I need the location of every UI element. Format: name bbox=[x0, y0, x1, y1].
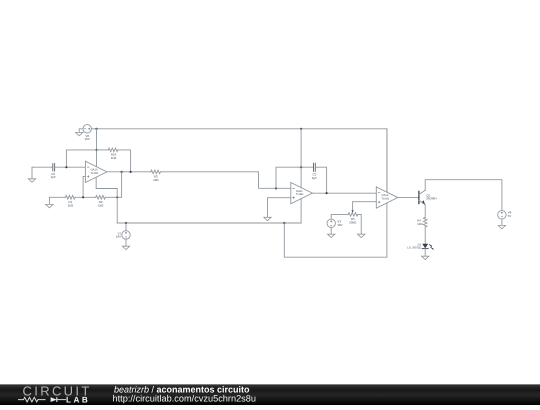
op-amp OA10 bbox=[85, 161, 107, 182]
ground (V6) bbox=[76, 132, 83, 135]
wire top supply rail bbox=[92, 129, 387, 192]
pot wiper arrowhead bbox=[351, 210, 353, 212]
voltage source V3 bbox=[327, 219, 335, 227]
svg-text:1kΩ: 1kΩ bbox=[98, 203, 104, 207]
svg-text:1kΩ: 1kΩ bbox=[68, 203, 74, 207]
transistor Q1 bbox=[418, 191, 420, 203]
LED D1 bbox=[422, 244, 428, 249]
node output to R2 bbox=[121, 171, 123, 173]
voltage source V8 bbox=[498, 211, 506, 219]
wire OA12 output to Q1 base bbox=[398, 197, 419, 199]
node non-inverting divider bbox=[82, 196, 84, 198]
ground (V3) bbox=[328, 234, 335, 237]
wire OA10 bottom supply stub bbox=[96, 177, 117, 223]
svg-text:TL081: TL081 bbox=[296, 193, 304, 196]
op-amp OA11 bbox=[291, 183, 313, 204]
svg-text:TL081: TL081 bbox=[91, 172, 99, 175]
svg-text:1kΩ: 1kΩ bbox=[111, 156, 117, 160]
svg-text:50kΩ: 50kΩ bbox=[349, 221, 357, 225]
wire OA10 non-inverting input bbox=[83, 176, 85, 197]
wire R5 right to ground bbox=[358, 214, 361, 234]
svg-text:TL081: TL081 bbox=[382, 198, 390, 201]
wire inverting input up to C3 bbox=[276, 167, 313, 188]
capacitor C3 bbox=[314, 163, 316, 171]
wire OA10 output bbox=[107, 171, 151, 173]
svg-text:16V: 16V bbox=[337, 223, 342, 227]
wire OA11 non-inverting to ground bbox=[268, 198, 291, 218]
node OA11 inverting input bbox=[275, 187, 277, 189]
node R2 to rail bbox=[116, 196, 118, 198]
wire R2 right lead bbox=[105, 196, 121, 198]
node R16 left junction bbox=[95, 149, 97, 151]
wire C2 to OA10 inverting input bbox=[55, 166, 86, 168]
op-amp OA12 bbox=[376, 187, 398, 208]
ground (V7) bbox=[122, 246, 129, 249]
ground (R5) bbox=[358, 234, 365, 237]
wire OA11 output to OA12 bbox=[312, 192, 376, 194]
wire OA11 bottom supply stub bbox=[300, 199, 302, 224]
resistor R3 bbox=[151, 170, 161, 174]
capacitor C2 bbox=[53, 164, 55, 171]
wire feedback to inverting input bbox=[66, 150, 96, 167]
wire OA11 top supply stub bbox=[300, 129, 302, 188]
wire OA10 top supply stub bbox=[96, 129, 98, 167]
ground (LED) bbox=[422, 256, 429, 259]
svg-text:16V: 16V bbox=[85, 137, 90, 141]
node inverting input bbox=[65, 166, 67, 168]
node V+ at OA11 bbox=[300, 128, 302, 130]
svg-text:1kΩ: 1kΩ bbox=[153, 178, 159, 182]
wire ground to C2 bbox=[32, 166, 52, 168]
resistor R4 bbox=[423, 217, 427, 227]
wire negative rail bbox=[117, 222, 301, 224]
node OA11 output feedback bbox=[326, 192, 328, 194]
ground (R1) bbox=[48, 197, 50, 204]
ground (V8) bbox=[498, 225, 505, 228]
wire OA12 top supply stub bbox=[386, 129, 388, 192]
wire R16 right lead to output bbox=[118, 150, 131, 172]
wire R1 left lead bbox=[49, 196, 65, 198]
node V+ at OA10 bbox=[95, 128, 97, 130]
svg-text:16V: 16V bbox=[116, 235, 121, 239]
svg-text:2N3904: 2N3904 bbox=[426, 197, 437, 201]
voltage source V6 bbox=[83, 125, 91, 133]
node rail to bottom loop bbox=[283, 222, 285, 224]
node output to R16 bbox=[130, 171, 132, 173]
node C3 line at supply stub bbox=[300, 166, 302, 168]
wire LED to ground bbox=[424, 249, 426, 257]
wire Q1 emitter to R4 bbox=[424, 205, 426, 218]
wire Q1 collector to supply bbox=[425, 180, 502, 211]
wire R5 left to source bbox=[331, 214, 348, 219]
svg-text:5V: 5V bbox=[508, 214, 512, 218]
wire OA12 non-inverting to pot wiper bbox=[353, 202, 377, 211]
wire R1 to R2 bbox=[75, 196, 96, 198]
wire V6 to ground bbox=[79, 129, 83, 133]
wire rail loop to OA12 bottom supply bbox=[284, 203, 387, 258]
svg-text:LTL-307EE: LTL-307EE bbox=[407, 245, 421, 249]
wire output down to R2 bbox=[121, 172, 123, 197]
wire R16 left lead bbox=[97, 149, 109, 151]
wire C3 to OA11 output bbox=[316, 167, 327, 193]
resistor R16 bbox=[108, 148, 118, 152]
resistor R2 bbox=[96, 196, 106, 200]
svg-text:1µF: 1µF bbox=[51, 175, 56, 179]
svg-text:1kΩ: 1kΩ bbox=[417, 222, 423, 226]
potentiometer R5 bbox=[348, 213, 358, 217]
ground (C2) bbox=[31, 167, 33, 179]
wire R4 to LED bbox=[424, 227, 426, 244]
svg-text:1µF: 1µF bbox=[312, 176, 317, 180]
resistor R1 bbox=[65, 196, 75, 200]
voltage source V7 bbox=[125, 222, 127, 224]
ground (OA11 +) bbox=[264, 217, 271, 220]
svg-text:http://circuitlab.com/cvzu5chr: http://circuitlab.com/cvzu5chrn2s8u bbox=[113, 394, 257, 404]
wire R3 to OA11 inverting input bbox=[160, 172, 290, 189]
svg-text:LAB: LAB bbox=[66, 395, 90, 404]
